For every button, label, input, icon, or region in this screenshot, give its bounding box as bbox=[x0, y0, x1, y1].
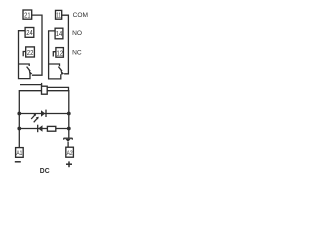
svg-text:NC: NC bbox=[72, 50, 82, 57]
svg-text:14: 14 bbox=[56, 29, 63, 38]
svg-text:A1: A1 bbox=[16, 150, 22, 157]
svg-text:21: 21 bbox=[24, 10, 31, 19]
svg-text:COM: COM bbox=[73, 12, 88, 19]
svg-text:12: 12 bbox=[56, 48, 63, 57]
svg-text:A2: A2 bbox=[67, 150, 73, 157]
svg-text:22: 22 bbox=[27, 48, 34, 57]
svg-text:NO: NO bbox=[72, 30, 82, 37]
svg-text:11: 11 bbox=[56, 10, 61, 19]
svg-text:DC: DC bbox=[40, 166, 50, 175]
svg-text:24: 24 bbox=[26, 28, 33, 37]
